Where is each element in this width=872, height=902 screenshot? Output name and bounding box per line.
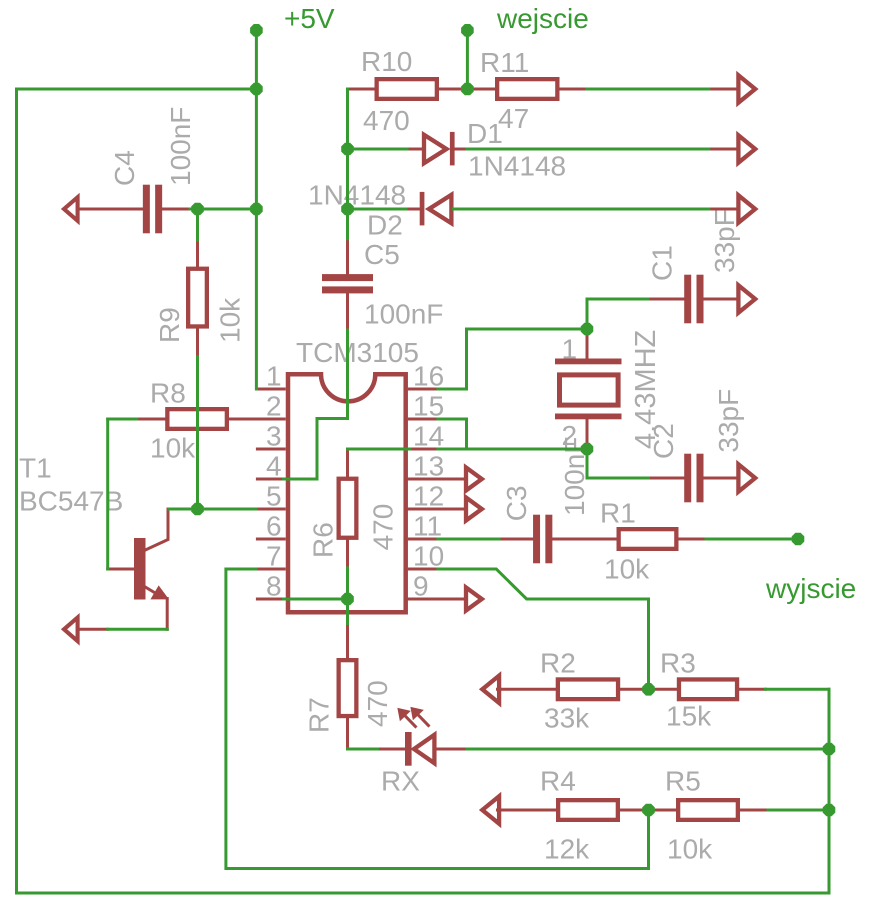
wire D1 cathode to arrow <box>467 148 709 151</box>
wire node column R10/D1/D2/C5 <box>346 89 349 239</box>
capacitor C5 leads <box>346 239 349 274</box>
IC pin numbers left 1-8 <box>266 361 282 602</box>
svg-text:6: 6 <box>266 511 282 542</box>
resistor R1 <box>619 529 677 549</box>
svg-text:2: 2 <box>562 420 578 451</box>
svg-text:10k: 10k <box>150 433 196 464</box>
ground terminal near C4 <box>64 197 78 221</box>
svg-text:1N4148: 1N4148 <box>308 180 406 211</box>
junction R5 right <box>823 804 836 817</box>
crystal Q1 bottom electrode <box>555 414 622 420</box>
terminal arrow at pin 13 <box>408 478 466 481</box>
svg-text:7: 7 <box>266 541 282 572</box>
svg-text:3: 3 <box>266 421 282 452</box>
wire emitter to ground segment <box>108 628 168 631</box>
junction C4 rail <box>250 203 263 216</box>
capacitor C3 leads <box>499 538 533 541</box>
wire LED cathode to right border <box>467 748 829 751</box>
capacitor C2 <box>684 454 691 503</box>
wire emitter ground red stub <box>78 628 108 631</box>
wire D2 segment left <box>348 208 407 211</box>
svg-text:33k: 33k <box>544 703 590 734</box>
wire R3 right to right border <box>766 688 830 691</box>
svg-text:12k: 12k <box>544 834 590 865</box>
junction C4/R9 <box>191 203 204 216</box>
wire collector row to pin 5 <box>169 508 256 511</box>
LED RX cathode bar <box>405 732 412 766</box>
junction crystal node 1 <box>581 323 594 336</box>
wire pin 14 row to crystal node 2 <box>348 448 410 451</box>
wire pin 11 to C3 <box>438 538 499 541</box>
wire R1 right to output dot <box>706 538 798 541</box>
wire C5 bottom through notch to pin 4 <box>284 330 348 479</box>
svg-text:470: 470 <box>363 105 410 136</box>
svg-text:R9: R9 <box>154 307 185 343</box>
resistor R4 leads <box>498 809 557 812</box>
svg-text:100nF: 100nF <box>165 107 196 186</box>
resistor R3 leads <box>649 688 677 691</box>
wire R6 bottom to junction <box>346 568 349 624</box>
resistor R8 leads <box>137 418 165 421</box>
svg-text:C3: C3 <box>501 485 532 521</box>
terminal arrow at C2 <box>738 464 755 491</box>
svg-text:RX: RX <box>381 766 420 797</box>
svg-text:R1: R1 <box>600 498 636 529</box>
resistor R9 leads <box>196 240 199 267</box>
svg-text:5: 5 <box>266 481 282 512</box>
junction D1 anode <box>341 143 354 156</box>
svg-text:12: 12 <box>413 481 444 512</box>
terminal arrow row3 <box>738 195 755 222</box>
resistor R1 right lead <box>679 538 706 541</box>
svg-text:470: 470 <box>362 680 393 727</box>
wire crystal node 1 up to C1 <box>587 299 648 329</box>
wire R7 bottom corner to LED <box>348 748 378 751</box>
svg-text:13: 13 <box>413 451 444 482</box>
wire pin 10 to R2/R3 junction <box>438 569 649 689</box>
capacitor C1 leads <box>648 298 684 301</box>
svg-text:R3: R3 <box>660 648 696 679</box>
svg-text:R2: R2 <box>540 648 576 679</box>
wire D1 anode segment <box>348 148 408 151</box>
terminal arrow at C1 <box>738 285 755 312</box>
svg-text:10k: 10k <box>667 834 713 865</box>
resistor R3 <box>679 679 737 699</box>
svg-text:R4: R4 <box>540 766 576 797</box>
terminal arrow at pin 9 <box>408 598 466 601</box>
junction pin8/R6/R7 <box>341 593 354 606</box>
svg-text:11: 11 <box>413 511 442 542</box>
svg-text:10k: 10k <box>604 554 650 585</box>
wire red stub to arrow row1 <box>709 88 738 91</box>
LED RX light arrow 1 <box>405 716 415 727</box>
svg-text:R10: R10 <box>361 46 412 77</box>
resistor R6 leads <box>346 449 349 477</box>
resistor R5 <box>678 800 738 820</box>
resistor R2 <box>558 679 618 699</box>
resistor R11 leads <box>467 88 495 91</box>
wire red stub to arrow row3 <box>709 208 738 211</box>
wire pin 16 to crystal node 1 <box>438 329 587 389</box>
svg-text:R11: R11 <box>480 47 529 78</box>
svg-text:8: 8 <box>266 571 282 602</box>
svg-text:R7: R7 <box>304 697 335 733</box>
svg-text:R8: R8 <box>150 378 186 409</box>
LED RX left lead <box>378 748 406 751</box>
IC U1 TCM3105 body outline with notch <box>288 374 406 612</box>
capacitor C1 <box>684 275 691 324</box>
svg-text:2: 2 <box>266 391 282 422</box>
svg-text:15: 15 <box>413 391 444 422</box>
IC pin numbers right 16-9 <box>413 361 444 602</box>
junction crystal node 2 <box>581 443 594 456</box>
svg-text:C2: C2 <box>648 423 679 459</box>
junction output wyjscie <box>792 533 805 546</box>
wire pin 7 long path to R4/R5 junction <box>226 569 649 869</box>
LED RX triangle <box>414 735 434 763</box>
wire R9 bottom to pin5 junction <box>196 357 199 509</box>
resistor R5 leads <box>649 809 677 812</box>
svg-text:100nF: 100nF <box>364 299 443 330</box>
svg-text:470: 470 <box>368 504 399 551</box>
wire bottom border horizontal <box>17 892 830 895</box>
resistor R9 <box>188 269 207 327</box>
wire pin 15 jog down <box>438 419 467 449</box>
transistor T1 base bar <box>134 538 146 600</box>
svg-text:33pF: 33pF <box>713 389 744 453</box>
ground terminal at R4 <box>482 796 499 823</box>
transistor T1 base pin <box>108 568 134 571</box>
svg-text:C5: C5 <box>364 239 400 270</box>
ground terminal at R2 <box>482 676 499 703</box>
diode D1 cathode bar <box>450 132 455 166</box>
svg-text:10k: 10k <box>215 297 246 343</box>
svg-text:TCM3105: TCM3105 <box>296 337 419 368</box>
junction +5V rail <box>250 83 263 96</box>
wire +5V vertical to IC pin 1 <box>255 30 258 389</box>
junction LED row right <box>823 743 836 756</box>
terminal arrow at pin 12 <box>408 508 466 511</box>
junction R2/R3 <box>642 683 655 696</box>
svg-text:15k: 15k <box>666 701 712 732</box>
wire C4 node down to R9 <box>196 209 199 240</box>
junction R4/R5 <box>642 804 655 817</box>
svg-text:D1: D1 <box>467 118 503 149</box>
svg-text:T1: T1 <box>19 453 52 484</box>
crystal Q1 pin 2 lead <box>586 419 589 447</box>
svg-text:14: 14 <box>413 421 444 452</box>
crystal Q1 body <box>560 375 619 405</box>
junction R10/R11 <box>461 83 474 96</box>
svg-text:wejscie: wejscie <box>496 3 589 34</box>
svg-text:wyjscie: wyjscie <box>765 573 856 604</box>
wire C4 to +5V rail <box>190 208 256 211</box>
wire D2 right to arrow <box>453 208 708 211</box>
transistor T1 emitter <box>145 587 156 594</box>
svg-text:10: 10 <box>413 541 444 572</box>
wire red stub to arrow row2 <box>709 148 738 151</box>
wire wejscie vertical <box>466 30 469 89</box>
wire R8 left segment <box>108 418 137 421</box>
resistor R10 <box>377 79 437 99</box>
svg-text:1: 1 <box>266 361 282 392</box>
IC left pin stubs 1-8 <box>256 389 286 599</box>
svg-text:+5V: +5V <box>284 3 335 34</box>
svg-text:D2: D2 <box>367 210 403 241</box>
resistor R8 <box>167 409 227 429</box>
LED RX right lead <box>437 748 468 751</box>
ground terminal near emitter <box>64 618 78 642</box>
wire +5V rail top-left horizontal <box>17 88 257 91</box>
svg-text:1N4148: 1N4148 <box>468 151 566 182</box>
svg-text:33pF: 33pF <box>709 209 740 273</box>
capacitor C4 leads <box>78 208 143 211</box>
diode D2 cathode bar <box>420 192 425 226</box>
diode D2 triangle <box>429 195 452 223</box>
svg-text:C1: C1 <box>647 245 678 281</box>
resistor R4 <box>558 800 618 820</box>
wire left border vertical <box>15 89 18 893</box>
wire right border vertical <box>828 689 831 893</box>
LED RX light arrow 2 <box>418 715 428 726</box>
resistor R7 <box>339 660 357 716</box>
svg-text:R6: R6 <box>307 522 338 558</box>
wire R11 right to arrow <box>587 88 709 91</box>
resistor R6 <box>339 479 357 538</box>
capacitor C5 <box>322 274 373 281</box>
capacitor C4 <box>143 185 150 234</box>
resistor R11 <box>497 79 557 99</box>
diode D2 leads <box>406 208 420 211</box>
svg-text:9: 9 <box>413 571 429 602</box>
IC right pin stubs 16-9 <box>408 389 438 599</box>
wire R8 corner down to T1 base <box>106 419 109 569</box>
svg-text:16: 16 <box>413 361 444 392</box>
junction pin5/R9/collector <box>191 503 204 516</box>
wire crystal node 2 down to C2 <box>587 449 649 478</box>
transistor T1 collector <box>145 509 168 550</box>
crystal Q1 top electrode <box>555 359 622 365</box>
wire R5 right to right border <box>768 809 829 812</box>
diode D1 leads <box>407 148 421 151</box>
svg-text:C4: C4 <box>109 150 140 186</box>
capacitor C2 leads <box>649 477 685 480</box>
svg-text:R5: R5 <box>665 766 701 797</box>
terminal arrow row2 <box>738 135 755 162</box>
junction wejscie top <box>461 24 474 37</box>
diode D1 triangle <box>424 135 447 163</box>
terminal arrow row1 <box>738 75 755 102</box>
resistor R7 leads <box>346 624 349 659</box>
resistor R2 leads <box>498 688 556 691</box>
wire pin 8 to center junction <box>284 598 348 601</box>
transistor T1 emitter arrowhead <box>151 586 168 599</box>
crystal Q1 pin 1 lead <box>586 331 589 359</box>
junction +5V top <box>250 24 263 37</box>
resistor R10 leads <box>348 88 375 91</box>
svg-text:4: 4 <box>266 451 282 482</box>
capacitor C3 <box>533 515 540 564</box>
junction D2/C5 <box>341 203 354 216</box>
